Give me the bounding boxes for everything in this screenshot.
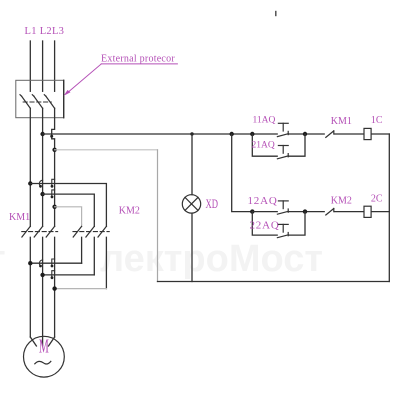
wire hop: pole2 return over L3 (square)	[51, 271, 55, 279]
wire hop: L2 feed over L3 (square)	[51, 190, 55, 198]
motor M circle	[24, 336, 65, 377]
branch wire for 21AQ	[252, 134, 305, 156]
svg-text:22AQ: 22AQ	[250, 219, 280, 231]
node: KM2 pole2 return joins L2	[40, 273, 44, 277]
svg-text:XD: XD	[206, 197, 219, 211]
motor tilde	[35, 361, 51, 364]
lamp return line gray horizontal	[55, 149, 158, 151]
wire: L3 tap across to KM2 pole 1 (gray)	[55, 207, 82, 225]
wire L3 breaker to KM1 contact (with jog over control line)	[52, 108, 55, 226]
interlock contact KM2 (row 2)	[326, 209, 334, 216]
node: lamp branch tee on control line	[190, 132, 193, 135]
lamp branch wire upper	[191, 134, 193, 195]
breaker pole 1 blade	[20, 95, 30, 109]
svg-text:KM2: KM2	[331, 195, 352, 206]
watermark	[0, 238, 323, 280]
node: row2 branch right	[303, 209, 307, 213]
wire: KM2 pole 1 return to L1	[30, 262, 81, 264]
lamp branch wire lower	[191, 213, 193, 281]
wire: row2 feed drop	[232, 134, 253, 212]
contactor KM2 pole 2	[86, 226, 94, 275]
stray tick mark top right	[275, 12, 277, 16]
node: KM2 feed tap on L1	[28, 181, 32, 185]
breaker pole 2 blade	[32, 95, 42, 109]
wire row 1 interlock to coil	[334, 133, 364, 135]
svg-text:12AQ: 12AQ	[248, 195, 278, 207]
wire row 2 button to interlock	[288, 211, 324, 213]
wire: L3 into motor	[49, 337, 55, 346]
svg-text:L1 L2L3: L1 L2L3	[25, 26, 65, 37]
pushbutton 11AQ	[277, 123, 288, 136]
wire: KM2 pole 3 return to L3 (gray)	[55, 288, 107, 290]
coil 1C	[364, 128, 371, 139]
svg-text:M: M	[39, 336, 49, 358]
KM2 linkage dashed	[73, 231, 109, 233]
bottom rail	[158, 281, 390, 283]
breaker pole 3 blade	[44, 95, 54, 109]
node: jog corner dot on L3	[50, 135, 53, 138]
contactor KM1 pole 2	[34, 226, 42, 345]
svg-text:лектроМост: лектроМост	[100, 238, 323, 280]
wire row 2 interlock to coil	[334, 211, 364, 213]
pushbutton 12AQ	[277, 201, 288, 214]
svg-text:KM1: KM1	[9, 212, 30, 223]
interlock contact KM1 (row 1)	[326, 131, 334, 138]
svg-text:1C: 1C	[371, 115, 383, 126]
svg-text:т: т	[0, 238, 6, 280]
breaker linkage dashed line	[23, 101, 51, 103]
node: KM2 feed tap on L2	[40, 192, 44, 196]
wire row 1 button to interlock	[288, 133, 324, 135]
annotation label: External protecor with leader arrow	[64, 54, 178, 96]
external protector box outline	[16, 80, 64, 117]
svg-text:11AQ: 11AQ	[253, 115, 276, 125]
svg-text:KM1: KM1	[331, 116, 352, 127]
net labels L1 L2 L3	[25, 26, 65, 37]
wire L1 drop into breaker	[29, 41, 31, 91]
branch wire for 22AQ	[252, 212, 305, 236]
wire: L1 into motor	[30, 337, 36, 346]
contactor KM2 pole 3	[98, 226, 106, 288]
wire hop: L1 feed over L2 (arc)	[39, 180, 43, 187]
wire hop: L1 feed over L3 (square)	[51, 179, 55, 187]
node: row1 branch left	[250, 132, 254, 136]
wire hop: pole1 return over L2 (arc)	[39, 260, 43, 267]
svg-text:21AQ: 21AQ	[252, 141, 275, 151]
wire row 1 coil to right rail	[371, 133, 389, 135]
node: row1 branch right	[303, 132, 307, 136]
coil 2C	[364, 206, 371, 217]
wire hop: pole1 return over L3 (square)	[51, 259, 55, 267]
node: KM2 pole3 return joins L3	[52, 286, 56, 290]
node: row2 branch left	[250, 209, 254, 213]
svg-text:KM2: KM2	[119, 206, 140, 217]
contactor KM1 pole 3	[46, 226, 54, 337]
svg-text:External protecor: External protecor	[101, 54, 175, 65]
node: KM2 pole1 return joins L1	[28, 261, 32, 265]
right rail	[388, 134, 390, 282]
pushbutton 22AQ	[277, 224, 288, 237]
KM1 linkage dashed	[22, 231, 58, 233]
wire: L1 tap across to KM2 pole 3	[30, 184, 106, 227]
control line row 2 tap to button	[252, 211, 277, 213]
wire L2 drop into breaker	[42, 41, 44, 91]
contactor KM2 pole 1	[73, 225, 81, 264]
contactor KM1 pole 1	[22, 226, 30, 337]
node: KM2 feed tap on L3	[52, 205, 56, 209]
wire L2 breaker to KM1 contact	[42, 108, 44, 226]
node: lamp return tap on L3	[52, 148, 56, 152]
control line row 1 from L2 tap to button	[43, 133, 278, 135]
svg-text:2C: 2C	[371, 194, 383, 205]
wire row 2 coil to right rail	[371, 211, 389, 213]
wire: L2 tap across to KM2 pole 2	[43, 194, 95, 226]
lamp XD	[182, 195, 200, 213]
wire L1 breaker to KM1 contact	[29, 108, 31, 226]
wire: KM2 pole 2 return to L2	[43, 274, 95, 276]
node: row2 tap on control line	[230, 132, 234, 136]
pushbutton 21AQ	[277, 146, 288, 159]
lamp return line gray vertical	[157, 150, 159, 282]
node: control tap on L2	[40, 132, 44, 136]
wire L3 drop into breaker	[54, 41, 56, 91]
